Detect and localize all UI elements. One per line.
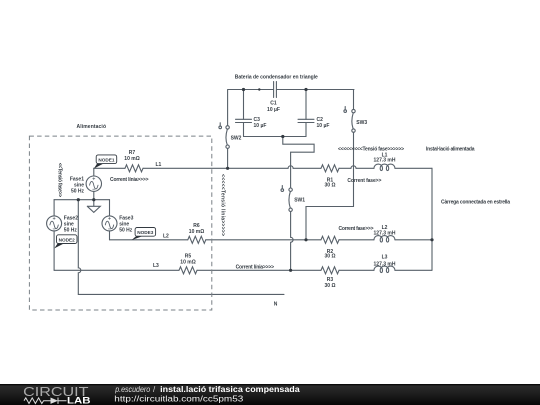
- wire line L3 end: [395, 269, 432, 271]
- svg-text:NODE1: NODE1: [98, 158, 115, 163]
- switch SW1: [289, 188, 292, 191]
- resistor R3: [321, 267, 339, 274]
- wire line L2: [110, 239, 188, 241]
- svg-text:50 Hz: 50 Hz: [119, 228, 133, 234]
- switch SW2: [226, 126, 229, 129]
- switch SW3: [352, 109, 355, 112]
- svg-text:NODE3: NODE3: [137, 230, 154, 235]
- svg-text:Corrent fase>>>: Corrent fase>>>: [339, 226, 374, 232]
- svg-text:10 mΩ: 10 mΩ: [180, 259, 195, 265]
- svg-text:10 µF: 10 µF: [267, 107, 280, 113]
- resistor R1: [321, 165, 339, 172]
- svg-text:L3: L3: [153, 263, 159, 269]
- svg-text:Corrent fase>>: Corrent fase>>: [347, 178, 381, 184]
- wire SW3 column: [306, 90, 354, 240]
- svg-text:<<Tensió fase>>: <<Tensió fase>>: [57, 163, 63, 198]
- resistor R6: [188, 236, 206, 243]
- node dot top small: [258, 88, 260, 90]
- wire line L3: [54, 269, 179, 271]
- wire cap battery bottom: [244, 136, 307, 138]
- resistor R2: [321, 236, 339, 243]
- capacitor C2: [298, 119, 314, 122]
- svg-text:10 µF: 10 µF: [317, 123, 330, 129]
- wire SW1 down with hop over L2: [291, 212, 294, 271]
- svg-text:Instal·lació alimentada: Instal·lació alimentada: [426, 146, 475, 152]
- wire neutral with hop over L3: [78, 200, 284, 295]
- node dot SW2/L1: [226, 167, 229, 170]
- svg-text:SW2: SW2: [231, 135, 242, 141]
- node dot cap bottom: [281, 135, 284, 138]
- node label NODE1: [94, 155, 117, 169]
- ground: [87, 200, 100, 213]
- wire right bus: [431, 168, 433, 270]
- wire line L1 mid2: [293, 167, 321, 169]
- inductor L1: [374, 164, 395, 171]
- wire fase3 bottom: [109, 231, 111, 240]
- wire line L2 mid: [206, 239, 321, 241]
- svg-text:L3: L3: [382, 255, 388, 261]
- wire sources top interconnect: [54, 199, 109, 201]
- wire SW2 column: [227, 90, 229, 169]
- svg-text:50 Hz: 50 Hz: [64, 228, 78, 234]
- footer bar: [0, 384, 540, 405]
- wire C2 branch: [305, 90, 307, 137]
- svg-text:http://circuitlab.com/cc5pm53: http://circuitlab.com/cc5pm53: [114, 393, 243, 403]
- svg-text:SW3: SW3: [356, 120, 367, 126]
- node dot top/C2: [304, 88, 307, 91]
- box alimentacio dashed: [29, 136, 211, 310]
- wire fase1 bottom: [93, 191, 95, 199]
- wire line L1 end: [395, 167, 432, 169]
- svg-text:<<<<<<<<<Tensió fase>>>>>>: <<<<<<<<<Tensió fase>>>>>>: [338, 146, 404, 152]
- svg-text:50 Hz: 50 Hz: [71, 189, 85, 195]
- inductor L3: [374, 266, 395, 273]
- wire fase2 top: [53, 200, 55, 216]
- svg-text:<<<<<Tensió línia>>>>>: <<<<<Tensió línia>>>>>: [220, 174, 226, 236]
- svg-text:L1: L1: [156, 162, 162, 168]
- wire C3 branch: [243, 90, 245, 137]
- wire cap battery top: [228, 89, 354, 91]
- svg-text:LAB: LAB: [67, 396, 91, 405]
- svg-text:10 µF: 10 µF: [254, 123, 267, 129]
- wire line L2 end: [395, 239, 432, 241]
- wire line L1 mid4: [356, 167, 374, 169]
- wire fase3 top: [109, 200, 111, 216]
- svg-text:30 Ω: 30 Ω: [325, 254, 336, 260]
- svg-text:Bateria de condensador en tria: Bateria de condensador en triangle: [235, 75, 318, 81]
- wire hop L1/tensio: [351, 166, 356, 169]
- node dot L2/bus: [430, 238, 433, 241]
- capacitor C1: [274, 82, 277, 98]
- svg-text:10 mΩ: 10 mΩ: [124, 156, 139, 162]
- node dot neutral tap: [77, 198, 80, 201]
- svg-text:Corrent línia>>>>: Corrent línia>>>>: [236, 265, 275, 271]
- svg-text:127.3 mH: 127.3 mH: [374, 158, 396, 164]
- node dot SW1/L3: [289, 269, 292, 272]
- node label NODE3: [132, 228, 156, 241]
- resistor R5: [179, 267, 197, 274]
- source Fase3: [102, 216, 117, 231]
- capacitor C3: [236, 119, 252, 122]
- svg-text:30 Ω: 30 Ω: [325, 283, 336, 289]
- wire line L1 mid: [143, 167, 288, 169]
- wire line L2 mid3: [339, 239, 374, 241]
- node label NODE2: [54, 235, 77, 249]
- node dot tensio/L2: [304, 238, 307, 241]
- node dot top/C3: [242, 88, 245, 91]
- svg-text:Corrent línia>>>>: Corrent línia>>>>: [110, 177, 149, 183]
- wire line L3 mid3: [339, 269, 374, 271]
- svg-text:Alimentació: Alimentació: [77, 124, 107, 130]
- svg-text:Càrrega connectada en estrella: Càrrega connectada en estrella: [441, 199, 510, 205]
- svg-text:C1: C1: [270, 101, 277, 107]
- wire line L3 mid2: [197, 269, 321, 271]
- resistor R7: [125, 165, 143, 172]
- svg-text:10 mΩ: 10 mΩ: [189, 229, 204, 235]
- svg-text:127.3 mH: 127.3 mH: [374, 231, 396, 237]
- wire line L1 mid3: [339, 167, 351, 169]
- source Fase1: [86, 176, 101, 191]
- wire step to SW1: [283, 137, 314, 188]
- source Fase2: [47, 216, 62, 231]
- wire hop L1/SW1: [288, 166, 293, 169]
- wire fase2 bottom: [53, 231, 55, 270]
- svg-text:SW1: SW1: [294, 198, 305, 204]
- logo zigzag diode: [24, 398, 67, 404]
- inductor L2: [374, 236, 395, 243]
- wire line L1: [94, 167, 125, 169]
- svg-text:N: N: [274, 302, 278, 308]
- node dot fase1 gnd: [92, 198, 95, 201]
- svg-text:127.3 mH: 127.3 mH: [374, 261, 396, 267]
- svg-text:L2: L2: [163, 234, 169, 240]
- wire fase1 top: [93, 168, 95, 176]
- svg-text:30 Ω: 30 Ω: [325, 182, 336, 188]
- svg-text:NODE2: NODE2: [59, 238, 76, 243]
